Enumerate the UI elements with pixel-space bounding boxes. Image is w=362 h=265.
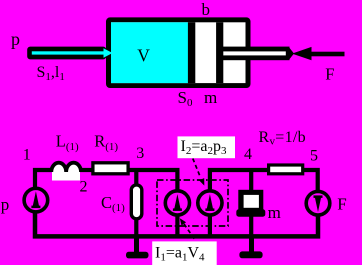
svg-text:1: 1 [23, 147, 31, 164]
capacitor C(1) [131, 185, 142, 219]
wire node 3 down [134, 170, 138, 184]
leader I1 [184, 224, 196, 241]
svg-text:F: F [337, 195, 346, 214]
dashed coupling box [157, 180, 228, 226]
wire node1 corner [35, 170, 52, 190]
force arrow F (top) [292, 47, 312, 60]
wire capacitor to rail [134, 219, 138, 236]
svg-text:2: 2 [80, 179, 88, 196]
svg-text:4: 4 [244, 146, 252, 163]
svg-text:p: p [1, 195, 10, 214]
formula box I2 [178, 136, 236, 158]
source I2 circle [198, 191, 222, 215]
formula box I1 [152, 241, 217, 265]
svg-text:p: p [11, 29, 20, 49]
piston plate 1 [188, 22, 195, 83]
svg-text:m: m [204, 88, 217, 107]
inlet pipe [27, 47, 106, 60]
pipe inlet arrowhead [104, 48, 113, 58]
svg-text:Rv=1/b: Rv=1/b [259, 129, 306, 148]
svg-text:5: 5 [310, 148, 318, 165]
wire inductor to resistor [80, 168, 92, 172]
leader I2 [193, 159, 201, 178]
inductor L(1) [52, 171, 80, 181]
wire below source I2 [208, 216, 212, 237]
wire below source I1 [175, 216, 179, 237]
wire below mass [249, 214, 253, 236]
source p circle [24, 188, 48, 212]
svg-text:F: F [325, 64, 334, 83]
fluid chamber V [111, 22, 188, 83]
source F circle [306, 191, 330, 215]
cylinder body [106, 17, 251, 88]
wire node 4 down to mass [249, 170, 253, 191]
wire I2 branch to node 5 corner [210, 170, 318, 191]
svg-text:V: V [137, 45, 150, 65]
pipe fluid core [32, 51, 107, 54]
svg-text:m: m [268, 203, 281, 222]
piston plate 2 [216, 22, 223, 83]
bottom rail [35, 213, 318, 236]
svg-text:3: 3 [136, 145, 144, 162]
resistor R(1) [93, 163, 128, 174]
ground 1 [134, 237, 139, 253]
ground 2 [249, 237, 254, 252]
mass element m [238, 190, 263, 213]
resistor Rv [269, 165, 303, 174]
svg-text:b: b [202, 0, 211, 19]
wire resistor to I1 branch [128, 170, 177, 190]
source I1 circle [165, 191, 189, 215]
piston rod [222, 47, 290, 61]
